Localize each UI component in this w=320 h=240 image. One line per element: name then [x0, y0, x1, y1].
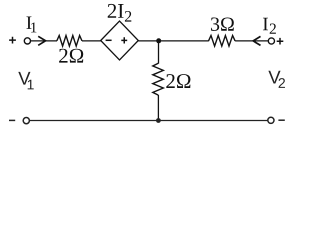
- plus sign inside dependent source: [121, 37, 127, 43]
- value label 2I2 for dependent source: [108, 4, 132, 22]
- terminal plus sign, port 1 (top-left): [9, 37, 16, 44]
- dependent source U1 (diamond, CCVS 2I2): [101, 21, 139, 60]
- label V2 (port 2 voltage): [268, 71, 285, 88]
- label V1 (port 1 voltage): [18, 72, 33, 90]
- resistor R2 vertical zigzag: [153, 63, 164, 95]
- label I1 (input current): [26, 16, 36, 32]
- value label 2Ω for R2: [166, 74, 190, 88]
- resistor R1 zigzag: [57, 36, 82, 47]
- current arrow I1 (pointing right): [38, 36, 45, 45]
- terminal node, port 2 + (top-right open circle): [268, 38, 274, 44]
- bottom rail wire: [30, 120, 268, 122]
- terminal plus sign, port 2 (top-right): [277, 38, 284, 45]
- terminal node, port 1 + (top-left open circle): [24, 38, 30, 44]
- value label 2Ω for R1: [59, 49, 83, 63]
- terminal minus sign, port 2 (bottom-right): [278, 119, 284, 121]
- terminal node, port 1 - (bottom-left open circle): [23, 118, 29, 124]
- label I2 (output current): [263, 18, 276, 34]
- wire: dependent source to node A and resistor R3: [138, 40, 209, 42]
- wire: R1 to dependent source: [82, 40, 101, 42]
- terminal node, port 2 - (bottom-right open circle): [268, 117, 274, 123]
- wire: node A down to resistor R2: [158, 41, 160, 64]
- wire: R2 down to bottom rail: [157, 95, 159, 121]
- wire: port 1 to resistor R1: [31, 40, 57, 42]
- value label 3Ω for R3: [211, 17, 234, 30]
- node A junction dot (top): [156, 38, 161, 43]
- minus sign inside dependent source: [106, 39, 112, 41]
- bottom junction dot: [156, 118, 161, 123]
- terminal minus sign, port 1 (bottom-left): [9, 119, 15, 121]
- resistor R3 zigzag: [209, 36, 236, 47]
- current arrow I2 (pointing left): [253, 36, 260, 45]
- wire: R3 to port 2: [235, 40, 268, 42]
